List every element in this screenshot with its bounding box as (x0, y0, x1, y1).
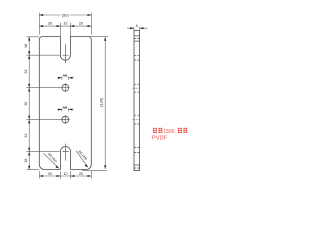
plate outline (front view) (39, 37, 91, 170)
dimension (50) overall width, top row (39, 13, 91, 35)
dimension row 20|10|20 top (39, 23, 91, 37)
red note: quantity 1500, material (152, 128, 188, 141)
svg-text:30: 30 (24, 102, 28, 106)
bottom slot center mark (62, 144, 68, 161)
svg-text:20: 20 (79, 21, 83, 25)
side view hidden lines (134, 38, 140, 168)
top slot center mark (62, 44, 68, 63)
hole circle 2 (62, 116, 69, 123)
svg-text:M8: M8 (63, 74, 67, 78)
M8 dimension hole 2 (57, 108, 73, 112)
svg-text:1500,: 1500, (163, 129, 176, 135)
svg-text:10: 10 (64, 172, 68, 176)
svg-text:32: 32 (24, 134, 28, 138)
leader R5 (4x) right (76, 151, 88, 167)
svg-text:(50): (50) (62, 12, 70, 17)
side view outline (134, 31, 140, 171)
leader R5 (4x) left (44, 153, 59, 168)
svg-text:PVDF: PVDF (152, 135, 168, 141)
dimension 6 thickness (127, 27, 147, 31)
side view solid feature lines (134, 36, 140, 165)
M8 dimension hole 1 (57, 76, 73, 80)
top slot (60, 37, 70, 61)
svg-text:32: 32 (24, 70, 28, 74)
svg-text:6: 6 (136, 24, 138, 28)
svg-text:18: 18 (24, 44, 28, 48)
dimension (130) overall height (82, 37, 108, 171)
svg-text:30: 30 (48, 21, 52, 25)
dimension row 20|10|20 bottom (39, 171, 91, 179)
svg-text:10: 10 (63, 21, 67, 25)
left dimension chain line (27, 37, 61, 170)
hole 2 crosshair (61, 115, 70, 124)
side view hole center marks (133, 88, 142, 119)
svg-text:20: 20 (79, 172, 83, 176)
chain arrows (28, 37, 30, 41)
svg-text:(130): (130) (99, 97, 104, 107)
svg-text:30: 30 (48, 172, 52, 176)
svg-text:M8: M8 (63, 105, 67, 109)
hole 1 crosshair (61, 83, 70, 92)
bottom slot (60, 147, 70, 170)
extension lines left chain (27, 37, 61, 170)
svg-text:18: 18 (24, 159, 28, 163)
hole circle 1 (62, 84, 69, 91)
